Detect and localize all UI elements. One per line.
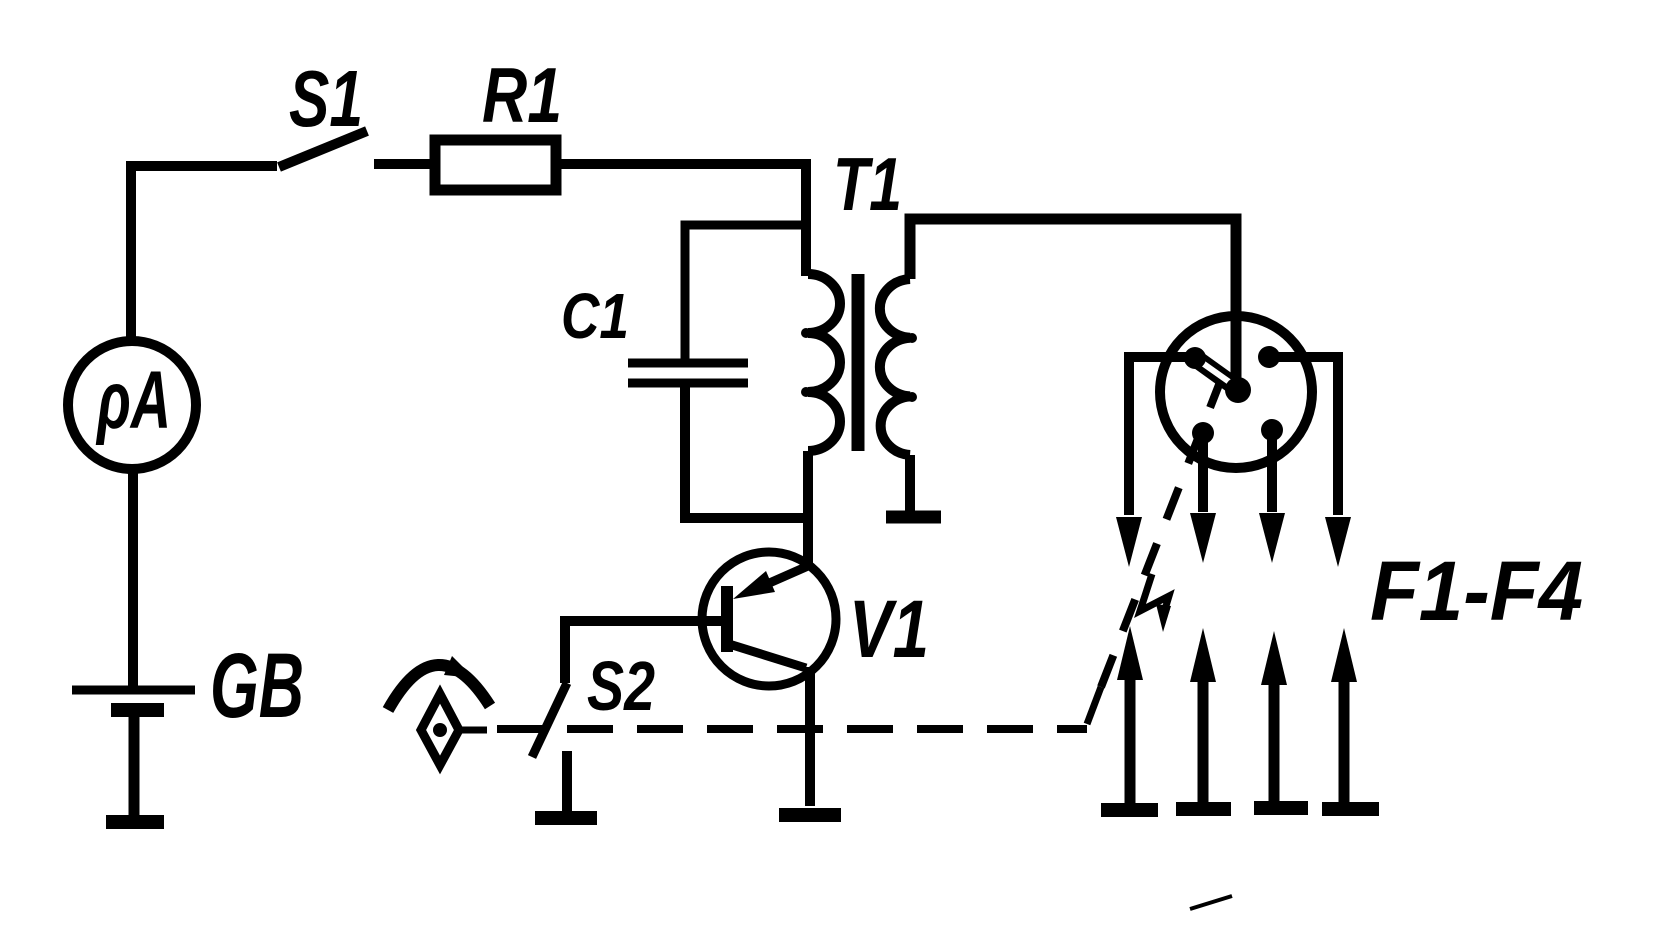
battery GB <box>72 690 195 822</box>
wire: secondary top HT lead to distributor rotor <box>910 219 1236 388</box>
svg-text:ρA: ρA <box>96 355 171 446</box>
wire: GB/meter top-left vertical and top horizontal to S1 <box>131 166 277 341</box>
transformer T1 primary winding <box>808 274 840 451</box>
svg-text:T1: T1 <box>833 142 902 226</box>
wire: base of V1 <box>565 621 722 683</box>
svg-text:C1: C1 <box>561 280 629 352</box>
switch S2 <box>532 683 567 757</box>
ground (secondary) <box>886 511 941 524</box>
ground (S2) <box>535 811 597 825</box>
rotation arrow <box>388 665 490 710</box>
wire: R1 to transformer primary top <box>556 164 806 276</box>
svg-text:R1: R1 <box>482 51 562 139</box>
resistor R1 <box>435 140 556 190</box>
svg-text:V1: V1 <box>849 584 929 675</box>
cam diamond <box>421 694 459 765</box>
capacitor C1 <box>628 363 748 383</box>
wire: emitter of V1 to ground <box>805 667 815 806</box>
svg-text:F1-F4: F1-F4 <box>1370 544 1583 638</box>
meter PA <box>68 341 196 469</box>
transformer T1 core <box>852 274 865 451</box>
svg-text:GB: GB <box>210 635 304 737</box>
wire: C1 top connection <box>685 225 806 360</box>
wire: distributor output 3 <box>1267 430 1277 512</box>
svg-text:S2: S2 <box>587 647 655 725</box>
spark plug F1 <box>1101 626 1158 810</box>
switch S1 <box>279 131 367 167</box>
wire: distributor output 4 <box>1269 357 1338 515</box>
spark plug F4 <box>1322 628 1379 809</box>
spark symbol <box>1140 574 1169 611</box>
wire: meter to battery <box>128 469 138 687</box>
wire: C1 bottom connection <box>685 383 808 518</box>
wire: primary bottom to transistor collector node <box>803 451 813 566</box>
wire: distributor output 1 <box>1129 357 1197 515</box>
ground (emitter) <box>779 808 841 822</box>
distributor <box>1160 316 1312 468</box>
wire: distributor output 2 <box>1198 433 1208 512</box>
spark plug F3 <box>1254 631 1308 808</box>
mechanical link (dashed) <box>459 727 487 734</box>
transformer T1 secondary winding <box>880 279 910 455</box>
wire: secondary bottom <box>905 455 915 513</box>
spark plug F2 <box>1176 628 1231 809</box>
svg-text:S1: S1 <box>289 54 363 143</box>
stray mark <box>1190 896 1232 909</box>
wire: stub S1 to R1 <box>374 159 436 169</box>
transistor V1 <box>702 552 836 686</box>
